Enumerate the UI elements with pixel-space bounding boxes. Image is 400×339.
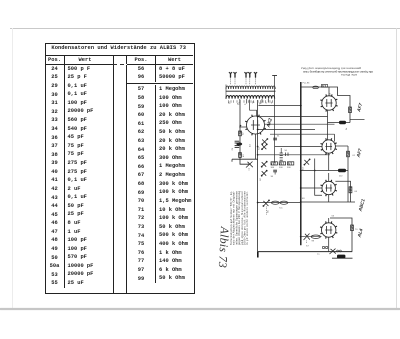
resistor R59 vertical on feeder bbox=[239, 153, 242, 158]
svg-text:300: 300 bbox=[287, 167, 291, 169]
right column rows group 2 bbox=[127, 85, 191, 283]
tone control dashed wire bbox=[258, 202, 301, 204]
svg-text:ABC1: ABC1 bbox=[357, 198, 365, 213]
switch S7 on V5 input wire bbox=[304, 234, 310, 244]
svg-text:e: e bbox=[245, 104, 247, 106]
terminal label under box bbox=[303, 83, 311, 85]
svg-text:S1: S1 bbox=[259, 147, 261, 150]
V5 output box top bbox=[330, 218, 352, 252]
resistor R64 on V4 right leg bbox=[349, 187, 352, 193]
choke Dr1 on V2 loop bbox=[339, 121, 346, 124]
scan frame top edge bbox=[10, 28, 400, 29]
trimmer capacitor stack C33 bbox=[280, 148, 283, 160]
wire hook at band switch left end bbox=[231, 159, 233, 162]
svg-text:g2: g2 bbox=[259, 103, 262, 105]
resistor R63 horizontal row bbox=[279, 162, 285, 165]
right column rows group 1 bbox=[127, 65, 185, 82]
wire V1 cathode down bbox=[255, 134, 257, 159]
wire screen feed bbox=[250, 100, 257, 117]
coil bumps on box top bbox=[313, 86, 319, 89]
svg-text:Albis 73: Albis 73 bbox=[216, 225, 231, 268]
resistor R70 on V5 right leg bbox=[351, 225, 354, 231]
main chassis bus (dark vertical) bbox=[300, 82, 302, 245]
wire anode 2 bbox=[270, 133, 335, 135]
junction dots bbox=[257, 105, 302, 238]
wire heater stub bbox=[332, 257, 353, 259]
oscillator vertical feeder bbox=[274, 76, 276, 164]
coil bank terminal tick row bbox=[229, 100, 273, 103]
resistor R69 capsule on V5 input wire bbox=[311, 235, 320, 238]
oscillator feeder top bar bbox=[272, 75, 277, 77]
resistor R62 horizontal row bbox=[271, 162, 277, 165]
V4 right leg bbox=[335, 181, 350, 202]
svg-text:Dr2: Dr2 bbox=[339, 175, 343, 178]
line under left header, solid then dash-dot bbox=[46, 64, 113, 65]
antenna/input terminal T3 bbox=[244, 72, 247, 84]
right subtable left border bbox=[126, 55, 127, 293]
tube V3 AF7 bbox=[321, 138, 337, 154]
wire V3 anode to right leg bbox=[335, 145, 348, 147]
tube V2 AF7 (IF amp) bbox=[320, 94, 337, 111]
tube V5 AL4 (output) bbox=[320, 221, 337, 238]
switch S1a wave band bbox=[262, 139, 268, 145]
left column rows bbox=[46, 65, 94, 288]
separator line after 96 bbox=[127, 83, 193, 84]
resistor R96 tiny on box top bbox=[321, 85, 327, 88]
wire IF input bbox=[258, 116, 328, 118]
coil bank left edge stub bbox=[225, 85, 227, 100]
antenna/input terminal T4 bbox=[248, 72, 251, 84]
junction dot choke row bbox=[314, 170, 316, 172]
resistor R67 capsule on tone wire bbox=[280, 201, 288, 204]
antenna/input terminal T1 bbox=[229, 72, 232, 84]
extra tiny component labels bbox=[243, 132, 359, 256]
svg-text:36: 36 bbox=[271, 176, 274, 178]
svg-text:31: 31 bbox=[277, 136, 280, 138]
wire choke row bbox=[301, 170, 348, 172]
wire AF stage rail bbox=[301, 201, 355, 203]
note text upside down (3 lines) bbox=[301, 67, 374, 77]
wire V5 grid up bbox=[328, 218, 330, 223]
coil bank L2 secondary winding row bbox=[226, 95, 275, 98]
resistor R57 vertical on feeder bbox=[239, 131, 242, 136]
coil winding tap descenders bbox=[240, 99, 268, 104]
svg-text:s: s bbox=[266, 102, 268, 104]
service note paragraph (rotated) bbox=[229, 190, 249, 245]
table title bbox=[45, 45, 194, 51]
svg-text:AL4: AL4 bbox=[356, 228, 363, 239]
wire V3 cathode down bbox=[328, 153, 330, 170]
trimmer ticks C34 bbox=[286, 153, 289, 157]
wire choke row to V4 bbox=[328, 173, 330, 181]
antenna/input terminal T2 bbox=[233, 72, 236, 84]
scan frame bottom edge bbox=[0, 308, 400, 310]
coil terminal tiny labels bbox=[228, 102, 273, 106]
choke Dr2 on choke row bbox=[338, 169, 346, 172]
capacitor C32 bbox=[273, 170, 277, 174]
switch S5 tone bbox=[263, 200, 270, 207]
wire detector grid bbox=[301, 187, 322, 189]
right header bbox=[127, 56, 181, 65]
antenna/input terminal T5 bbox=[254, 72, 257, 84]
coil bank core line bbox=[226, 90, 276, 92]
secondary vertical bus bbox=[257, 100, 259, 252]
misc component labels bbox=[232, 92, 348, 247]
scan frame right edge bbox=[396, 28, 397, 309]
svg-text:99: 99 bbox=[312, 241, 315, 243]
wire anode bend down bbox=[334, 134, 336, 141]
svg-text:64: 64 bbox=[303, 167, 305, 170]
svg-text:AF7: AF7 bbox=[356, 102, 363, 113]
switch S1b wave band bbox=[262, 144, 268, 150]
svg-text:S5: S5 bbox=[268, 210, 270, 213]
resistor R64 horizontal row bbox=[287, 162, 293, 165]
left vertical feeder bbox=[240, 100, 250, 164]
resistor R61 on V3 right leg bbox=[347, 151, 350, 157]
tube V1 AK2 (mixer) bbox=[245, 115, 266, 136]
switch S6 near V1 cathode bbox=[246, 162, 253, 171]
svg-text:AF7: AF7 bbox=[355, 148, 362, 159]
svg-text:S2: S2 bbox=[260, 178, 262, 181]
capacitor C31 bbox=[273, 138, 277, 140]
V2 anode circuit box top bbox=[301, 87, 350, 123]
V3 right leg bbox=[347, 146, 349, 171]
left subtable right border bbox=[113, 55, 114, 293]
wire V2 bottom loop bbox=[328, 122, 351, 124]
svg-text:64: 64 bbox=[355, 191, 358, 193]
wire osc coupling bbox=[275, 146, 323, 148]
V1 grid stub wires bbox=[239, 126, 246, 128]
switch S2 wave band bbox=[261, 161, 267, 167]
wire cathode row bbox=[258, 154, 330, 156]
parts table outer box bbox=[45, 43, 196, 294]
svg-text:500: 500 bbox=[279, 167, 283, 169]
wire AVC divider vertical bbox=[315, 159, 322, 196]
capacitor C29 plates bbox=[235, 141, 240, 147]
wire box top to V2 bbox=[328, 87, 330, 96]
switch S3 wave band bbox=[261, 170, 267, 176]
wire V2 anode stub right bbox=[350, 119, 365, 121]
wire V5 cathode down bbox=[328, 237, 330, 251]
rail jack circles bbox=[337, 250, 339, 252]
svg-text:AK2: AK2 bbox=[265, 117, 273, 129]
svg-text:43: 43 bbox=[243, 154, 245, 157]
resistor row labels bbox=[271, 167, 292, 169]
switch S4 AVC bbox=[304, 159, 310, 165]
wire bottom supply rail bbox=[258, 251, 353, 253]
svg-text:in pF wenn nicht anders vermer: in pF wenn nicht anders vermerkt. bbox=[245, 191, 249, 245]
svg-text:44: 44 bbox=[250, 144, 252, 147]
switch S5 actuator dashes bbox=[266, 207, 268, 216]
line under title bbox=[45, 55, 194, 56]
svg-text:Pos.96: Pos.96 bbox=[303, 83, 311, 85]
line under right header bbox=[127, 64, 193, 65]
left header bbox=[46, 56, 92, 65]
svg-text:Dr: Dr bbox=[345, 127, 348, 130]
speaker field blob bbox=[337, 255, 345, 259]
svg-text:Ton: Ton bbox=[279, 208, 283, 210]
bus ground stub below rail bbox=[257, 252, 259, 258]
svg-text:50: 50 bbox=[285, 150, 288, 152]
coil bank L1 primary winding row bbox=[226, 86, 275, 89]
wire V5 input bbox=[301, 236, 322, 238]
wire V3/V4 shared right leg lower bbox=[347, 171, 349, 203]
wire grid feed bbox=[258, 105, 300, 107]
svg-text:gemessen mit Roehrenvoltmeter: gemessen mit Roehrenvoltmeter und Netz bbox=[301, 67, 362, 71]
svg-text:k: k bbox=[271, 103, 273, 105]
svg-text:69: 69 bbox=[302, 198, 305, 200]
wire anode 1 bbox=[265, 123, 335, 125]
wire V2 to V3 bbox=[327, 110, 329, 139]
wire V4 down to AF rail bbox=[328, 195, 330, 202]
svg-text:53: 53 bbox=[332, 216, 335, 218]
svg-text:La: La bbox=[317, 254, 320, 256]
pilot lamp jacks bbox=[322, 246, 324, 248]
resistor R66 capsule on tone wire bbox=[271, 201, 279, 204]
scan frame left edge bbox=[12, 28, 13, 309]
svg-text:29: 29 bbox=[232, 147, 234, 150]
tube V4 ABC1 bbox=[321, 180, 337, 196]
svg-text:300: 300 bbox=[271, 167, 275, 169]
wire AVC bbox=[258, 129, 315, 131]
coil bump on left feeder bbox=[236, 142, 242, 145]
mains switch on rail bbox=[330, 249, 336, 254]
resistor R58 on V2 right leg bbox=[349, 107, 352, 113]
wire band switch stub bbox=[232, 158, 258, 160]
svg-text:58: 58 bbox=[330, 92, 332, 95]
svg-text:S7: S7 bbox=[306, 246, 309, 248]
